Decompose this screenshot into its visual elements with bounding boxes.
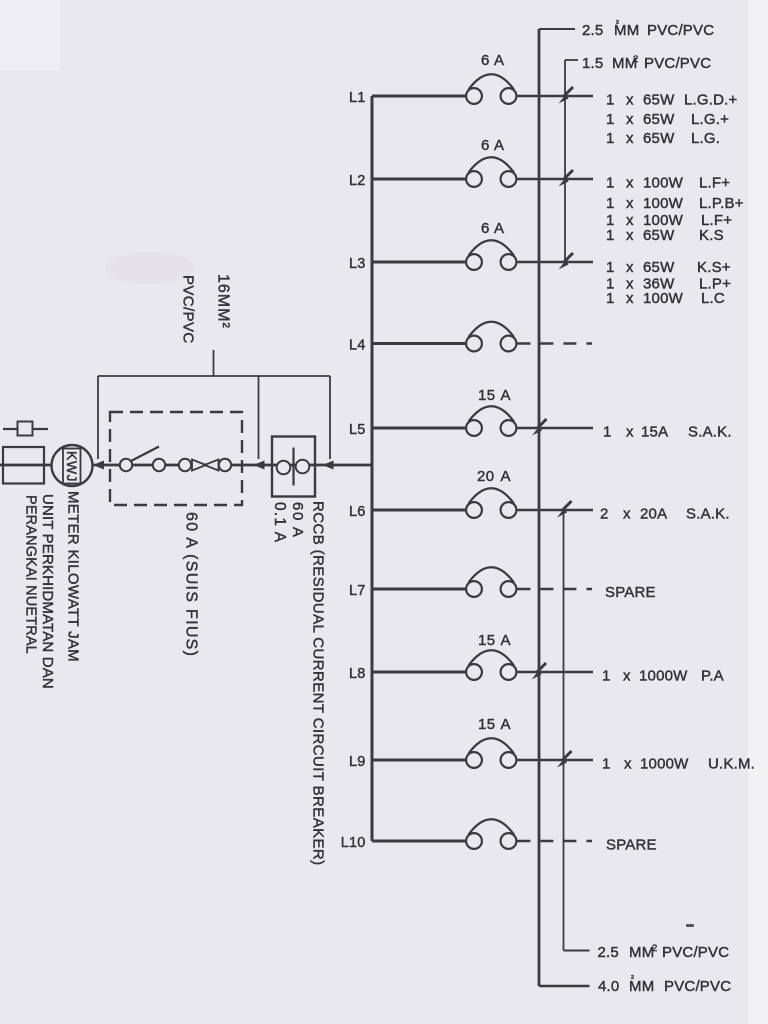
svg-text:L9: L9: [349, 754, 366, 770]
svg-text:K.S: K.S: [699, 227, 724, 244]
svg-text:P.A: P.A: [701, 668, 724, 685]
svg-text:L10: L10: [341, 835, 366, 851]
svg-text:2.5: 2.5: [598, 944, 619, 961]
svg-text:15: 15: [478, 387, 496, 404]
svg-text:6: 6: [481, 220, 490, 237]
svg-text:L3: L3: [349, 256, 366, 272]
svg-text:65W: 65W: [643, 111, 675, 128]
svg-text:60 A (SUIS FIUS): 60 A (SUIS FIUS): [183, 512, 200, 657]
svg-text:RCCB (RESIDUAL CURRENT CIRCUIT: RCCB (RESIDUAL CURRENT CIRCUIT BREAKER): [310, 501, 327, 866]
svg-text:A: A: [501, 387, 511, 404]
svg-text:x: x: [626, 175, 634, 192]
svg-text:MM: MM: [629, 944, 654, 961]
svg-text:A: A: [501, 468, 511, 485]
svg-text:0.1 A: 0.1 A: [271, 502, 288, 543]
svg-text:PVC/PVC: PVC/PVC: [644, 55, 711, 72]
svg-text:PVC/PVC: PVC/PVC: [647, 22, 714, 39]
svg-text:65W: 65W: [643, 130, 675, 147]
svg-text:100W: 100W: [643, 175, 684, 192]
svg-text:KWJ: KWJ: [64, 451, 80, 482]
svg-text:2: 2: [633, 54, 638, 65]
svg-text:x: x: [623, 668, 631, 685]
svg-text:A: A: [494, 220, 504, 237]
svg-text:L.P.B+: L.P.B+: [699, 195, 744, 212]
svg-text:L.G.D.+: L.G.D.+: [684, 92, 738, 109]
svg-text:K.S+: K.S+: [697, 259, 731, 276]
svg-text:20: 20: [477, 468, 495, 485]
svg-text:1: 1: [606, 259, 615, 276]
svg-text:U.K.M.: U.K.M.: [708, 756, 755, 773]
svg-text:L8: L8: [349, 666, 366, 682]
svg-text:20A: 20A: [640, 506, 667, 523]
svg-text:15: 15: [478, 632, 496, 649]
svg-text:65W: 65W: [643, 227, 675, 244]
svg-text:65W: 65W: [643, 259, 675, 276]
svg-text:6: 6: [481, 52, 490, 69]
svg-text:2: 2: [652, 943, 657, 954]
svg-text:x: x: [626, 259, 634, 276]
svg-text:1.5: 1.5: [582, 55, 603, 72]
svg-text:SPARE: SPARE: [605, 584, 656, 601]
svg-text:PERANGKAI NUETRAL: PERANGKAI NUETRAL: [23, 495, 39, 654]
svg-text:PVC/PVC: PVC/PVC: [664, 978, 731, 995]
svg-text:A: A: [501, 632, 511, 649]
svg-text:x: x: [626, 130, 634, 147]
svg-text:L.C: L.C: [701, 290, 725, 307]
svg-text:2: 2: [600, 506, 609, 523]
svg-text:65W: 65W: [643, 92, 675, 109]
svg-text:L5: L5: [349, 422, 366, 438]
svg-text:²: ²: [631, 973, 634, 983]
svg-text:L1: L1: [349, 90, 366, 106]
svg-text:²: ²: [616, 18, 619, 28]
svg-text:15A: 15A: [641, 424, 668, 441]
svg-text:S.A.K.: S.A.K.: [688, 424, 732, 441]
svg-text:PVC/PVC: PVC/PVC: [180, 275, 197, 344]
svg-text:15: 15: [478, 716, 496, 733]
svg-text:1: 1: [606, 175, 615, 192]
svg-text:1000W: 1000W: [639, 668, 688, 685]
svg-text:L6: L6: [349, 504, 366, 520]
svg-text:1: 1: [606, 111, 615, 128]
svg-text:2.5: 2.5: [582, 22, 603, 39]
svg-text:SPARE: SPARE: [606, 837, 657, 854]
svg-text:PVC/PVC: PVC/PVC: [662, 944, 729, 961]
svg-text:L.F+: L.F+: [699, 175, 730, 192]
svg-text:x: x: [626, 290, 634, 307]
svg-text:1000W: 1000W: [640, 756, 689, 773]
svg-text:1: 1: [602, 756, 611, 773]
svg-text:1: 1: [603, 424, 612, 441]
svg-text:METER KILOWATT JAM: METER KILOWATT JAM: [65, 491, 82, 662]
svg-text:1: 1: [606, 227, 615, 244]
svg-text:1: 1: [602, 668, 611, 685]
svg-text:1: 1: [606, 195, 615, 212]
svg-text:x: x: [624, 756, 632, 773]
svg-text:L.G.: L.G.: [691, 130, 720, 147]
svg-text:x: x: [623, 506, 631, 523]
svg-text:S.A.K.: S.A.K.: [686, 506, 730, 523]
svg-text:1: 1: [606, 92, 615, 109]
svg-text:L2: L2: [349, 173, 366, 189]
svg-text:A: A: [494, 137, 504, 154]
svg-text:L4: L4: [349, 338, 366, 354]
svg-text:100W: 100W: [643, 195, 684, 212]
svg-text:6: 6: [481, 137, 490, 154]
svg-text:UNIT PERKHIDMATAN DAN: UNIT PERKHIDMATAN DAN: [39, 494, 56, 689]
svg-text:L7: L7: [349, 583, 366, 599]
svg-text:x: x: [626, 227, 634, 244]
svg-text:A: A: [494, 52, 504, 69]
svg-text:x: x: [626, 424, 634, 441]
svg-text:1: 1: [606, 130, 615, 147]
svg-text:16MM²: 16MM²: [215, 274, 232, 329]
svg-text:x: x: [626, 92, 634, 109]
svg-text:x: x: [626, 111, 634, 128]
svg-text:4.0: 4.0: [598, 978, 619, 995]
svg-text:100W: 100W: [643, 290, 684, 307]
svg-text:A: A: [501, 716, 511, 733]
svg-text:1: 1: [606, 290, 615, 307]
svg-text:60 A: 60 A: [289, 502, 306, 538]
svg-text:x: x: [626, 195, 634, 212]
svg-text:L.G.+: L.G.+: [691, 111, 729, 128]
